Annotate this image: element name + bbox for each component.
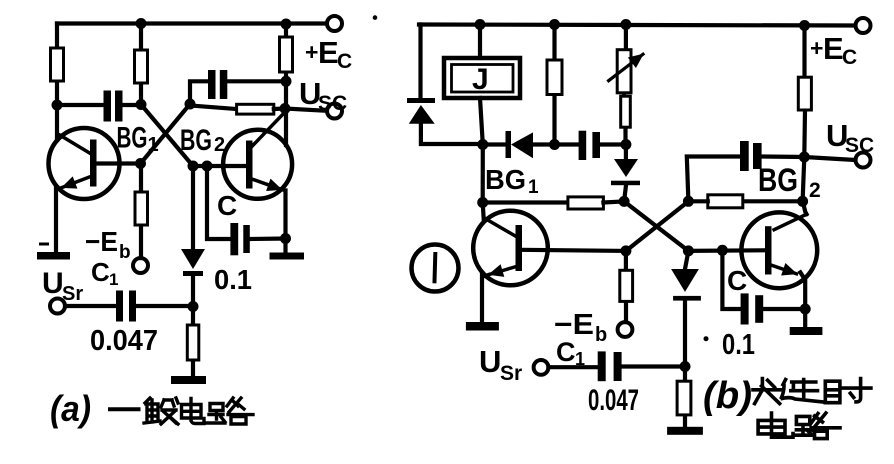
terminal Usr (a)	[50, 299, 65, 314]
transistor BG1 (b)	[473, 211, 548, 286]
resistor R2b (b)	[547, 60, 562, 95]
svg-text:C: C	[337, 50, 352, 73]
node rail-R4 (a)	[281, 19, 292, 30]
wire cross-coupling diagonal to BG2 base (a)	[141, 105, 193, 167]
node cap C branch (b)	[717, 245, 728, 256]
wire cross diagonal to BG2b base (b)	[624, 201, 688, 251]
wire Usr to C1 (a)	[65, 304, 116, 308]
speck	[704, 336, 709, 341]
node input coupling (a)	[188, 301, 199, 312]
wire coupling resistor right lead (b)	[603, 201, 624, 202]
char ban	[144, 398, 178, 424]
wire R2b branch (b)	[552, 25, 556, 145]
svg-text:b: b	[595, 324, 607, 346]
node rail-relay (b)	[475, 19, 486, 30]
svg-text:b: b	[119, 242, 131, 263]
svg-text:+: +	[810, 35, 823, 61]
resistor R2 (a)	[135, 50, 148, 83]
resistor R1 (a)	[51, 48, 64, 81]
wire top cap right lead (a)	[227, 79, 286, 83]
node Usc (b)	[799, 152, 810, 163]
resistor R8b (b)	[708, 195, 743, 208]
capacitor coupling Ca1 (a)	[104, 91, 123, 122]
wire C1 to node (a)	[136, 304, 193, 308]
caption text yi-ban-dian-lu (a) hand-drawn	[110, 398, 253, 424]
svg-text:Sr: Sr	[500, 362, 522, 385]
capacitor C1b (b)	[598, 351, 622, 381]
wire top supply rail (a)	[57, 21, 327, 25]
node emitter-cap (b)	[800, 304, 811, 315]
wire coupling resistor left lead (b)	[483, 200, 568, 204]
resistor R3 (a)	[237, 104, 274, 114]
ground BG2b emitter (b)	[790, 327, 823, 335]
transistor BG2 (b)	[741, 212, 817, 288]
node input coupling (b)	[680, 361, 691, 372]
node rail-R5b (b)	[799, 20, 810, 31]
wire cross-coupling diagonal to BG1 base (a)	[141, 104, 191, 164]
wire feedback resistor right lead (a)	[274, 106, 285, 111]
svg-text:+: +	[305, 39, 318, 65]
node top cap corner (b)	[683, 196, 694, 207]
wire BG1 base lead (a)	[96, 161, 141, 165]
wire speed-up cap branch (a)	[207, 166, 230, 239]
node BG1 base (a)	[135, 158, 146, 169]
char lu2	[794, 413, 840, 439]
diode D1b protection (b)	[407, 98, 435, 124]
wire top supply rail (b)	[419, 25, 856, 26]
wire to Usc terminal (a)	[285, 109, 327, 111]
wire diode D4b branch (b)	[685, 251, 688, 269]
svg-text:2: 2	[809, 179, 821, 202]
node rail-R2 (a)	[136, 18, 147, 29]
char yi	[110, 407, 139, 411]
ground BG1 emitter (a)	[37, 252, 70, 260]
wire R2 branch (a)	[139, 24, 143, 105]
svg-text:U: U	[42, 267, 64, 300]
node emitter-cap (a)	[280, 233, 291, 244]
capacitor C1 (a)	[116, 291, 136, 322]
wire BG1b emitter to ground (b)	[480, 275, 484, 322]
transistor BG1 (a)	[49, 128, 120, 199]
meter I indicator (b)	[412, 245, 459, 292]
wire BG2 emitter to ground (a)	[283, 191, 287, 253]
resistor R6 (a)	[187, 325, 199, 360]
svg-text:C: C	[727, 265, 747, 296]
node R2 bottom (a)	[136, 99, 147, 110]
svg-text:2: 2	[214, 134, 225, 156]
node BG2b collector resistor junction (b)	[797, 196, 808, 207]
wire cap to emitter node (a)	[250, 236, 286, 241]
wire BG1b collector branch (b)	[483, 145, 484, 222]
svg-text:0.1: 0.1	[214, 264, 252, 295]
wire D4b to input node (b)	[683, 301, 687, 367]
wire to diode D2b (b)	[483, 142, 506, 146]
wire relay top lead (b)	[478, 25, 482, 59]
node BG1b collector (b)	[477, 197, 488, 208]
svg-text:0.047: 0.047	[588, 384, 639, 417]
node rail-R2b (b)	[549, 19, 560, 30]
node BG2 base right (a)	[202, 161, 213, 172]
wire feedback resistor left lead (b)	[688, 199, 707, 203]
wire cap left lead (a)	[57, 103, 104, 107]
speck	[39, 243, 49, 246]
wire D3b to cross node (b)	[624, 185, 626, 201]
terminal -Eb (a)	[133, 258, 148, 273]
node cap-collector BG2 (a)	[281, 76, 292, 87]
svg-text:1: 1	[109, 270, 118, 289]
wire right collector branch (b)	[803, 26, 806, 215]
terminal Usc (a)	[327, 104, 342, 119]
svg-text:1: 1	[528, 177, 539, 198]
svg-text:C: C	[842, 46, 857, 69]
wire base return resistor branch (b)	[683, 367, 687, 427]
wire Usr to C1b (b)	[548, 365, 597, 369]
resistor R4b (b)	[568, 197, 604, 209]
svg-text:−E: −E	[85, 226, 118, 257]
ground BG1b emitter (b)	[466, 322, 499, 331]
svg-text:Sr: Sr	[62, 283, 83, 305]
svg-text:C: C	[556, 337, 576, 367]
wire cap to rheostat node (b)	[600, 142, 626, 146]
node Usc (a)	[280, 103, 291, 114]
node BG2b base left (b)	[683, 245, 694, 256]
caption text chang-yan-shi (b) hand-drawn	[753, 379, 871, 404]
wire base resistor branch (a)	[139, 164, 143, 259]
wire cap right lead (a)	[123, 103, 142, 107]
svg-text:(a): (a)	[50, 388, 91, 429]
diode D3b timing (b)	[611, 159, 640, 185]
wire BG2 base lead (a)	[193, 164, 247, 168]
char lu	[206, 398, 253, 424]
wire feedback resistor right lead (b)	[743, 199, 803, 203]
capacitor Ca2 (a)	[208, 70, 227, 99]
relay J coil (b)	[444, 58, 520, 98]
char yan	[782, 380, 823, 402]
ground R6 (a)	[171, 376, 206, 384]
wire cross diagonal to BG1b base (b)	[626, 201, 689, 251]
caption text dian-lu line2 (b) hand-drawn	[758, 413, 840, 439]
terminal +Ec (b)	[856, 18, 871, 33]
svg-text:C: C	[91, 257, 110, 287]
wire left collector branch (a)	[55, 24, 59, 141]
resistor R4 (a)	[280, 37, 293, 72]
wire to diode D3b (b)	[624, 145, 628, 160]
node BG2 base left (a)	[188, 161, 199, 172]
char dian	[182, 399, 205, 424]
capacitor C2b (b)	[579, 131, 600, 160]
wire rheostat branch (b)	[624, 25, 626, 145]
wire D2b to R2b node (b)	[533, 142, 555, 146]
terminal Usc (b)	[856, 153, 871, 168]
svg-text:0.1: 0.1	[722, 329, 755, 361]
wire C1b to node (b)	[622, 364, 685, 368]
svg-text:E: E	[823, 31, 844, 66]
resistor R3b (b)	[621, 96, 631, 127]
terminal +Ec (a)	[327, 16, 342, 31]
node rheostat bottom (b)	[620, 139, 631, 150]
diode D2b (b)	[506, 131, 534, 158]
wire top cap left lead (a)	[190, 81, 208, 104]
wire diode to input node (a)	[191, 276, 195, 307]
svg-text:BG: BG	[485, 164, 526, 195]
svg-text:SC: SC	[845, 134, 874, 157]
wire BG2b base lead (b)	[688, 248, 765, 253]
char shi	[825, 379, 871, 403]
wire -Eb resistor branch (b)	[624, 251, 628, 322]
terminal -Eb (b)	[618, 322, 633, 337]
wire to cap C2b (b)	[555, 142, 579, 146]
capacitor C 0.1 (a)	[230, 223, 249, 255]
node BG1 collector / cap (a)	[52, 100, 63, 111]
terminal Usr (b)	[534, 360, 549, 375]
node rail-rheostat (b)	[620, 19, 631, 30]
svg-text:0.047: 0.047	[90, 325, 158, 357]
node BG1b base (b)	[620, 245, 631, 256]
wire speed-up cap branch (b)	[722, 250, 740, 309]
diode D1 (a)	[181, 249, 205, 276]
resistor R6b (b)	[620, 270, 633, 301]
wire feedback resistor left lead (a)	[190, 106, 237, 110]
wire left branch down to diode (b)	[418, 25, 422, 99]
svg-text:1: 1	[575, 349, 585, 369]
wire BG2b emitter to ground (b)	[800, 272, 805, 327]
transistor BG2 (a)	[223, 112, 292, 199]
wire top cap left lead (b)	[687, 157, 740, 202]
svg-text:SC: SC	[318, 92, 347, 115]
wire relay bottom lead (b)	[480, 98, 483, 145]
ground R7b (b)	[667, 427, 703, 435]
resistor R5b (b)	[798, 77, 811, 110]
wire diode branch (a)	[191, 166, 195, 249]
resistor R5 (a)	[135, 192, 148, 225]
wire cap to emitter node (b)	[763, 307, 805, 311]
node top cap corner (a)	[185, 99, 196, 110]
char chang	[753, 379, 782, 404]
node diode-resistor-diagonal (b)	[619, 196, 630, 207]
svg-text:BG: BG	[117, 122, 148, 155]
svg-text:(b): (b)	[703, 375, 752, 417]
node relay-diode junction (b)	[477, 139, 488, 150]
wire base return resistor (a)	[191, 307, 195, 377]
ground BG2 emitter (a)	[270, 253, 305, 260]
wire BG1 emitter to ground (a)	[54, 188, 58, 252]
wire diode to relay node (b)	[421, 124, 483, 144]
speck	[373, 15, 378, 20]
svg-text:BG: BG	[758, 162, 798, 198]
wire R4 collector branch (a)	[284, 24, 288, 145]
resistor R7b (b)	[677, 381, 691, 415]
diode D4b (b)	[671, 269, 701, 301]
svg-text:1: 1	[148, 134, 159, 156]
node R2b bottom (b)	[549, 139, 560, 150]
wire to Usc terminal (b)	[804, 157, 855, 160]
wire top cap right lead (b)	[762, 154, 805, 159]
svg-text:J: J	[472, 63, 489, 96]
rheostat RP (b)	[609, 50, 643, 93]
svg-text:BG: BG	[180, 124, 212, 157]
svg-text:E: E	[318, 35, 339, 70]
capacitor C3b coupling (b)	[740, 141, 762, 171]
char dian2	[758, 413, 793, 437]
wire BG1b base lead (b)	[522, 250, 626, 251]
svg-text:U: U	[479, 344, 501, 379]
svg-text:C: C	[217, 190, 237, 221]
capacitor C 0.1 (b)	[741, 293, 764, 324]
